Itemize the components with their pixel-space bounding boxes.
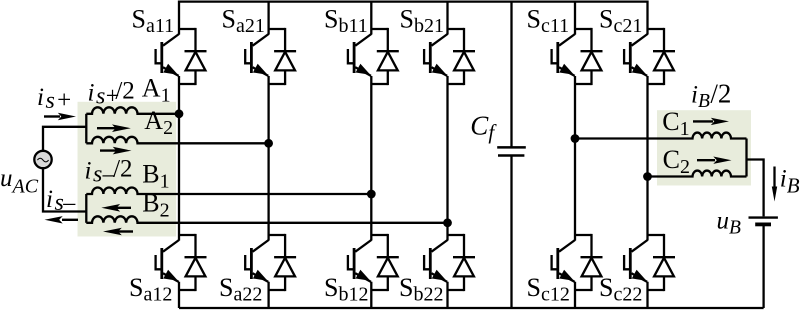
current arrow iB (downward) [772,167,777,202]
current arrow above winding C2 [697,157,732,164]
switch Sc12 (IGBT+diode) [552,234,603,291]
bracket joining A1/A2 windings [85,114,87,144]
current arrow under winding A2 [100,147,132,155]
current arrow under winding A1 [97,124,131,132]
joining bracket C1/C2 right [745,139,747,177]
switch Sa22 (IGBT+diode) [245,234,296,291]
switch Sa12 (IGBT+diode) [156,234,207,291]
switch Sa21 (IGBT+diode) [245,28,296,85]
wire battery to bottom bus [762,226,764,308]
AC source uAC [34,151,51,168]
bracket joining B1/B2 windings [85,194,87,223]
current arrow under winding B2 (leftward) [103,228,133,236]
leg a2 rail [267,1,269,309]
filter capacitor Cf branch [510,1,512,148]
inductor winding A2 + wire to node A2 [86,137,268,143]
current arrow is+ [44,113,76,120]
inductor winding B2 + wire to node B2 [86,216,447,223]
wire AC top to inductor block [43,127,86,151]
wire AC bottom to inductor block [43,168,86,211]
current arrow above winding C1 [693,118,729,125]
node C2 [643,172,652,181]
leg c1 rail [574,1,576,309]
node C1 [571,134,580,143]
switch Sb21 (IGBT+diode) [424,28,475,85]
node B2 [443,218,452,227]
switch Sb22 (IGBT+diode) [424,234,475,291]
bottom DC bus [179,307,764,309]
inductor winding A1 + wire to node A1 [86,107,179,113]
leg b2 rail [446,1,448,309]
node B1 [367,190,376,199]
node A1 [175,109,184,118]
filter inductor block shading (right) [657,110,751,185]
battery uB negative plate [755,222,771,226]
switch Sb11 (IGBT+diode) [348,28,399,85]
current arrow under winding B1 (leftward) [101,204,131,212]
switch Sa11 (IGBT+diode) [156,28,207,85]
switch Sc11 (IGBT+diode) [552,28,603,85]
leg c2 rail [646,1,648,309]
inductor winding B1 + wire to node B1 [86,188,371,194]
leg b1 rail [370,1,372,309]
svg-text:is–: is– [46,186,76,216]
battery uB positive plate [749,216,778,218]
wire to battery [747,160,764,217]
node A2 [264,139,273,148]
switch Sc22 (IGBT+diode) [624,234,675,291]
inductor winding C2 + wires [648,171,747,177]
interphase inductor block shading (left) [78,102,177,237]
top DC bus [179,0,648,2]
switch Sc21 (IGBT+diode) [624,28,675,85]
switch Sb12 (IGBT+diode) [348,234,399,291]
svg-text:iB/2: iB/2 [691,78,731,112]
current arrow is- (leftward) [45,216,79,223]
svg-text:is+: is+ [37,84,71,114]
leg a1 rail [178,1,180,309]
inductor winding C1 + wires [575,133,747,139]
